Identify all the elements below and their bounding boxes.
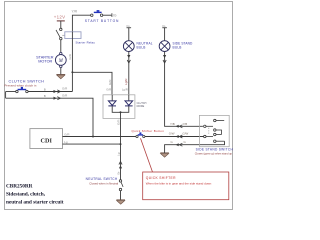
diode box D1 D2: [103, 87, 135, 118]
ground G2: [116, 199, 125, 201]
wire neutral drop: [120, 144, 122, 180]
svg-text:START BUTTON: START BUTTON: [85, 19, 119, 23]
wire clutch line 2: [6, 98, 93, 136]
svg-text:G/R: G/R: [62, 93, 68, 97]
wire relay contact to motor: [60, 40, 62, 53]
power +12V: [54, 15, 66, 29]
connector J5: [176, 135, 179, 138]
svg-text:QUICK SHIFTER: QUICK SHIFTER: [146, 176, 176, 180]
svg-text:Quick Shifter Button: Quick Shifter Button: [132, 129, 165, 133]
sidestand bulb L2: [159, 41, 193, 52]
diode D2: [121, 95, 133, 112]
svg-text:Lg: Lg: [116, 152, 120, 156]
svg-text:When the bike is in gear and t: When the bike is in gear and the side st…: [146, 181, 212, 185]
svg-text:G/R: G/R: [62, 87, 68, 91]
svg-text:Sidestand, clutch,: Sidestand, clutch,: [6, 191, 46, 197]
wire bulb2 down: [165, 52, 203, 127]
wire diode out down: [120, 112, 122, 144]
quick shifter button SW3: [132, 129, 165, 138]
svg-text:Pressed when clutch in: Pressed when clutch in: [5, 83, 37, 87]
svg-text:+12V: +12V: [54, 15, 66, 20]
wire Y/R corner: [72, 15, 90, 32]
svg-text:neutral and starter circuit: neutral and starter circuit: [6, 199, 64, 205]
wire bulb1 down to diode: [128, 52, 130, 96]
wire ground to sidestand switch: [165, 141, 225, 153]
svg-text:G/R: G/R: [64, 133, 69, 137]
svg-text:Closed when in Neutral: Closed when in Neutral: [89, 181, 118, 185]
ground G3: [160, 152, 169, 154]
svg-text:G/R: G/R: [68, 53, 72, 59]
clutch switch SW2: [5, 80, 45, 93]
connector J6: [119, 161, 122, 164]
svg-text:G/R: G/R: [106, 87, 111, 91]
note box: [143, 172, 229, 200]
svg-text:Y/R: Y/R: [72, 10, 78, 14]
title: [6, 183, 64, 205]
svg-text:IG: IG: [113, 13, 117, 17]
wire branch to diode: [72, 72, 112, 95]
wire button to switch: [145, 136, 204, 138]
svg-text:CDI: CDI: [41, 137, 53, 144]
node junction clutch line2: [92, 136, 94, 138]
neutral bulb L1: [123, 41, 152, 52]
connector J2: [54, 97, 57, 100]
svg-text:G/R: G/R: [108, 79, 112, 85]
connector J1: [54, 90, 57, 93]
wire neutral switch to ground: [120, 191, 122, 200]
starter relay contact switch: [56, 28, 65, 40]
diode D1: [108, 95, 120, 112]
svg-text:BULB: BULB: [137, 46, 146, 50]
svg-text:Y/B: Y/B: [170, 122, 175, 126]
note leader line: [141, 138, 153, 172]
CDI box U2: [30, 129, 63, 149]
svg-text:Closes (goes up) when stand up: Closes (goes up) when stand up: [195, 151, 233, 155]
wire Lg from CDI: [63, 143, 121, 145]
power IG bulb2: [162, 24, 167, 41]
wire motor to ground: [60, 68, 62, 75]
svg-text:BULB: BULB: [173, 46, 182, 50]
side stand switch SW5 box: [195, 115, 234, 155]
svg-text:G/W: G/W: [183, 132, 189, 136]
svg-text:Y/B: Y/B: [183, 122, 188, 126]
connector J7: [176, 143, 179, 146]
connector J8: [176, 125, 179, 128]
svg-text:Lg: Lg: [64, 140, 68, 144]
svg-text:G/R: G/R: [116, 119, 120, 125]
svg-text:Starter Relay: Starter Relay: [76, 41, 96, 45]
start button SW1: [85, 10, 119, 23]
node diode junction: [120, 111, 122, 113]
wire clutch switch to connector: [28, 91, 72, 93]
svg-text:Lg/R: Lg/R: [122, 87, 128, 91]
connector J4: [163, 55, 166, 58]
svg-text:G/W: G/W: [169, 132, 175, 136]
wire start button to IG: [103, 14, 112, 16]
power IG bulb1: [127, 24, 132, 41]
svg-text:B: B: [44, 87, 46, 91]
node junction Lg/diode: [120, 143, 122, 145]
wire relay coil down: [71, 39, 73, 92]
relay coil U1: [65, 32, 96, 45]
svg-text:CBR250RR: CBR250RR: [6, 183, 33, 189]
svg-text:DIODE: DIODE: [137, 105, 145, 108]
svg-text:SIDE STAND SWITCH: SIDE STAND SWITCH: [196, 148, 234, 152]
svg-text:MOTOR: MOTOR: [38, 59, 52, 63]
connector J3: [127, 55, 130, 58]
svg-text:Br: Br: [116, 171, 120, 174]
wire clutch bypass tie: [5, 92, 7, 99]
ground G1: [57, 74, 66, 76]
starter motor M1: [36, 52, 66, 67]
svg-text:Lg/R: Lg/R: [124, 78, 128, 85]
wire G/R main: [63, 136, 136, 138]
neutral switch SW4: [86, 177, 123, 191]
terminal IG: [111, 13, 113, 17]
svg-text:B: B: [44, 94, 46, 98]
